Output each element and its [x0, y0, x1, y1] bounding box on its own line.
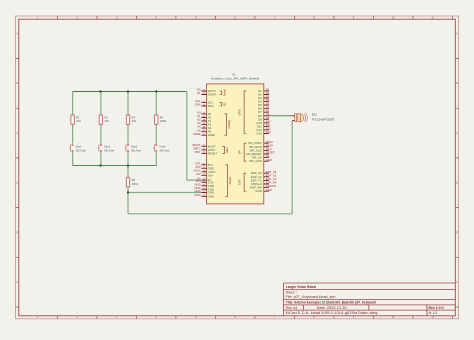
svg-text:SPI_GND: SPI_GND — [249, 159, 262, 163]
svg-text:I2C: I2C — [222, 102, 226, 106]
svg-text:Rev 1.0.0: Rev 1.0.0 — [429, 306, 444, 310]
svg-text:330R: 330R — [160, 119, 166, 123]
svg-text:GPIO: GPIO — [238, 109, 242, 116]
svg-text:KiCad E.D.A. kicad 8.99.0-101: KiCad E.D.A. kicad 8.99.0-1014-g87f9a7da… — [286, 311, 379, 315]
svg-text:R1: R1 — [76, 115, 80, 119]
svg-text:ESP: ESP — [238, 179, 242, 185]
svg-text:AREF: AREF — [193, 132, 201, 136]
svg-text:SDA: SDA — [195, 103, 201, 107]
svg-text:Key2: Key2 — [104, 145, 110, 149]
svg-text:D13: D13 — [266, 130, 272, 134]
svg-text:Key4: Key4 — [160, 145, 166, 149]
svg-text:Id: 1/1: Id: 1/1 — [429, 311, 438, 315]
svg-text:GND: GND — [266, 158, 272, 162]
svg-text:SW_Push: SW_Push — [104, 149, 114, 153]
svg-text:Analog: Analog — [227, 120, 231, 129]
svg-text:SW_Push: SW_Push — [131, 149, 141, 153]
svg-text:Langer Vision Robot: Langer Vision Robot — [286, 285, 317, 289]
svg-text:Size: A4: Size: A4 — [286, 306, 298, 310]
svg-text:GND: GND — [208, 194, 214, 198]
svg-text:SW_Push: SW_Push — [160, 149, 170, 153]
svg-text:Key3: Key3 — [131, 145, 137, 149]
svg-text:R2: R2 — [105, 115, 109, 119]
svg-text:SDA: SDA — [208, 104, 214, 108]
svg-text:GND: GND — [194, 193, 200, 197]
svg-text:D: D — [456, 182, 458, 185]
svg-text:C: C — [16, 132, 18, 135]
svg-text:1K0: 1K0 — [76, 119, 81, 123]
svg-text:GND: GND — [255, 189, 261, 193]
svg-text:Arduino_Uno_R4_WiFi_Shield: Arduino_Uno_R4_WiFi_Shield — [211, 77, 259, 81]
svg-text:Date: 2023-12-30: Date: 2023-12-30 — [317, 306, 347, 310]
svg-text:D13: D13 — [256, 132, 262, 136]
svg-text:SPI: SPI — [238, 150, 242, 155]
svg-text:Power: Power — [228, 177, 232, 185]
svg-text:Key1: Key1 — [76, 145, 82, 149]
svg-text:Serial: Serial — [222, 89, 226, 96]
svg-text:PS1240P02BT: PS1240P02BT — [312, 117, 335, 121]
svg-text:AREF: AREF — [208, 133, 216, 137]
svg-text:+5V: +5V — [196, 172, 201, 176]
svg-text:+5V: +5V — [208, 173, 213, 177]
svg-text:GND: GND — [266, 188, 272, 192]
svg-text:C: C — [456, 132, 458, 135]
svg-text:R4: R4 — [160, 115, 164, 119]
svg-text:D1/RX: D1/RX — [208, 93, 217, 97]
svg-text:R5: R5 — [132, 178, 136, 182]
svg-text:RESET: RESET — [208, 151, 218, 155]
svg-text:R3: R3 — [132, 115, 136, 119]
svg-text:File: p07_Keyboard.kicad_sch: File: p07_Keyboard.kicad_sch — [286, 295, 336, 299]
svg-text:D1: D1 — [197, 91, 201, 95]
svg-text:D: D — [16, 182, 18, 185]
svg-text:4K7: 4K7 — [105, 119, 110, 123]
svg-text:2K2: 2K2 — [132, 119, 137, 123]
svg-text:BZ1: BZ1 — [312, 112, 318, 116]
svg-text:10KΩ: 10KΩ — [132, 182, 139, 186]
svg-text:SW_Push: SW_Push — [76, 149, 86, 153]
svg-text:Misc: Misc — [225, 146, 229, 152]
svg-text:Title: Arduino Examples 10.Sta: Title: Arduino Examples 10.StarterKit_Ba… — [286, 300, 376, 305]
svg-text:RST: RST — [195, 150, 201, 154]
